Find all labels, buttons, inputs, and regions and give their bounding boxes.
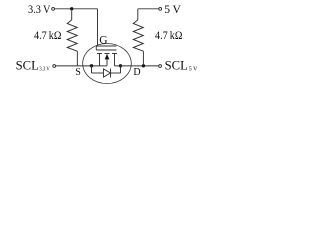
node drain/diode junction dot (119, 64, 122, 67)
svg-text:S: S (75, 67, 81, 78)
drain stem (114, 54, 116, 66)
wire 3.3V rail top (55, 8, 98, 10)
svg-text:SCL: SCL (165, 58, 188, 73)
wire cathode lead (111, 72, 121, 74)
wire gate lead vertical (97, 9, 99, 46)
channel bar left (97, 53, 102, 55)
wire diode cathode tap (120, 66, 122, 73)
diode D1 triangle (104, 69, 111, 77)
svg-text:4.7 kΩ: 4.7 kΩ (155, 28, 182, 42)
wire R1 bottom lead (76, 51, 78, 66)
svg-text:4.7 kΩ: 4.7 kΩ (34, 28, 61, 42)
wire diode anode tap (91, 66, 93, 73)
svg-text:SCL: SCL (16, 58, 39, 73)
wire R1 top lead (71, 9, 73, 20)
transistor Q1 body circle (83, 44, 132, 84)
svg-text:G: G (99, 35, 107, 47)
gate left connector (95, 46, 97, 50)
terminal 3.3V open circle (52, 7, 55, 10)
node junction dot top-left (70, 7, 73, 10)
svg-text:D: D (133, 67, 140, 78)
svg-text:5 V: 5 V (164, 2, 181, 16)
svg-text:3.3 V: 3.3 V (28, 2, 51, 16)
channel bar right (112, 53, 117, 55)
wire drain rail (115, 65, 159, 67)
resistor R2 4.7k zigzag (133, 20, 143, 51)
body arrow (points up) (105, 54, 110, 60)
channel bar middle (105, 53, 110, 55)
node source/diode junction dot (90, 64, 93, 67)
wire R2 top lead (137, 9, 139, 20)
source stem (99, 54, 101, 66)
body stem (106, 55, 108, 66)
svg-text:3.3 V: 3.3 V (39, 66, 50, 73)
gate upper bar (96, 45, 116, 47)
diode D1 cathode bar (110, 69, 112, 78)
terminal 5V open circle (159, 7, 162, 10)
terminal SCL3.3 open circle (53, 65, 56, 68)
node drain/pullup junction dot (142, 64, 145, 67)
gate plate (96, 49, 116, 51)
wire anode lead (92, 72, 104, 74)
resistor R1 4.7k zigzag (67, 20, 77, 51)
wire 5V rail top (138, 8, 159, 10)
terminal SCL5 open circle (159, 65, 162, 68)
wire source rail (56, 65, 107, 67)
svg-text:5 V: 5 V (189, 66, 198, 73)
wire R2 bottom lead (142, 51, 144, 66)
